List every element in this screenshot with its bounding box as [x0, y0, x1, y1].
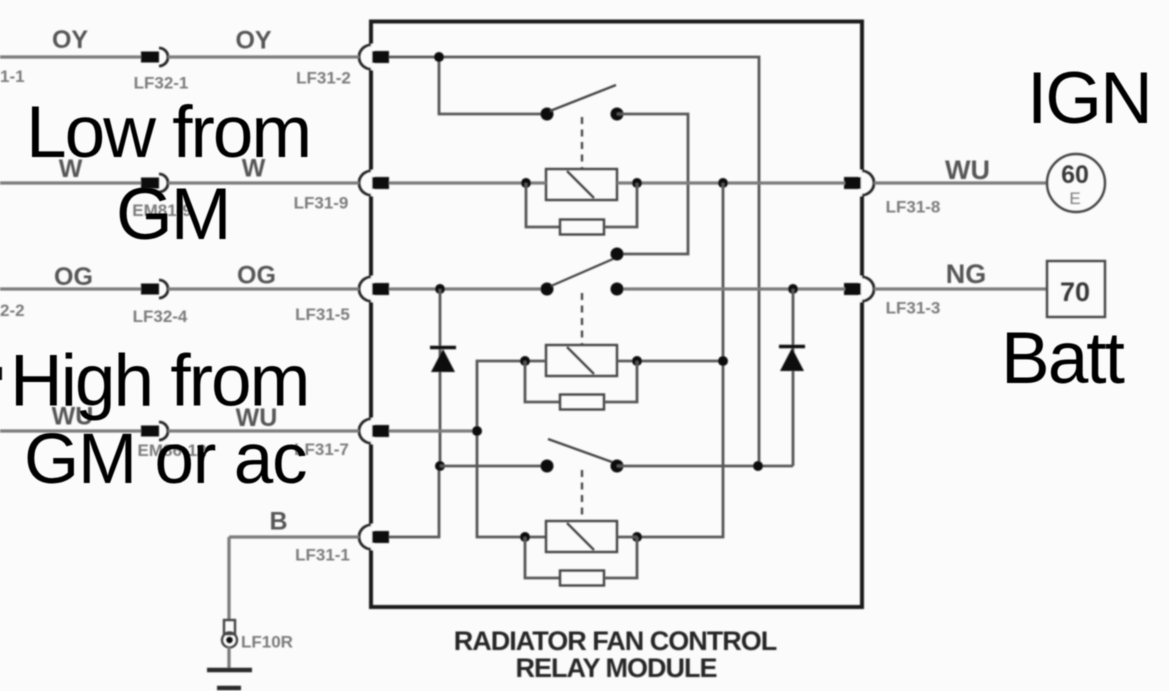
junction dot K1 right [632, 178, 642, 188]
dashed actuator link relay 2 [581, 293, 583, 344]
wire WU left segment [0, 429, 141, 432]
junction dot riser net W at K2 [718, 356, 728, 366]
pin socket arc LF31-8 [862, 171, 874, 195]
wire NG switch 2 right to pin LF31-3 [617, 287, 845, 290]
svg-text:RELAY MODULE: RELAY MODULE [515, 653, 716, 683]
wire W from pin LF31-9 to coil K1 [389, 181, 546, 184]
wire B riser to switch 3 junction [389, 466, 439, 537]
ground bar 2 [217, 686, 241, 691]
pin socket arc LF31-5 [359, 277, 371, 301]
dashed actuator link relay 3 [581, 470, 583, 520]
wire coil K3 right stub [617, 536, 637, 539]
pin LF31-9 [372, 177, 389, 189]
svg-text:OG: OG [54, 263, 93, 291]
pin LF31-5 [372, 283, 389, 295]
svg-text:LF32-1: LF32-1 [134, 74, 189, 93]
wire WU pin LF31-7 to riser [389, 429, 477, 432]
svg-text:OY: OY [52, 26, 88, 54]
connector LF32-4 [141, 284, 159, 295]
pin notch gaps on border [371, 44, 862, 550]
svg-text:Low from: Low from [26, 92, 310, 173]
ground bar 1 [207, 668, 252, 673]
relay coil K3 [546, 521, 617, 552]
connector LF32-1 [141, 52, 159, 63]
junction dot diode D2 top [788, 284, 798, 294]
junction dot B / D1 / switch3 [435, 461, 445, 471]
svg-text:IGN: IGN [1027, 58, 1151, 139]
svg-text:OY: OY [235, 27, 271, 55]
switch 3 blade [548, 439, 612, 462]
wire coil K2 right to riser [617, 360, 723, 363]
svg-text:LF10R: LF10R [241, 633, 293, 652]
junction dot K2 right [632, 356, 642, 366]
svg-text:GM or ac: GM or ac [24, 420, 306, 499]
vertical riser net W to coils 2 and 3 [637, 183, 723, 537]
pin socket arc LF31-1 [359, 525, 371, 549]
wire switch1 right to switch2 upper throw [617, 114, 688, 254]
pin LF31-2 [372, 51, 389, 63]
wire coil K2 left feed from LF31-7 riser [477, 361, 546, 537]
svg-text:NG: NG [946, 259, 987, 289]
junction dot K3 left [520, 532, 530, 542]
pin LF31-3 [844, 283, 861, 295]
wire W right segment [168, 181, 359, 184]
switch 2 blade (closed to upper throw) [551, 259, 613, 286]
wire OY right segment [168, 55, 359, 58]
diode D1 vertical net [439, 289, 442, 466]
switch 1 blade [550, 85, 616, 111]
svg-text:LF31-9: LF31-9 [294, 194, 349, 213]
resistor R2 bypass loop [525, 361, 560, 402]
resistor R1 bypass loop [526, 183, 560, 227]
junction dot K2 left [520, 356, 530, 366]
svg-text:LF31-1: LF31-1 [295, 546, 350, 565]
pin socket arc LF31-7 [359, 419, 371, 443]
wire W left segment [0, 181, 141, 184]
ground eyelet rect LF10R [224, 620, 235, 634]
junction dot net W / vertical riser [718, 178, 728, 188]
svg-text:WU: WU [945, 155, 990, 185]
svg-text:70: 70 [1060, 277, 1090, 307]
wire OG left segment [0, 287, 141, 290]
svg-text:LF32-4: LF32-4 [133, 307, 188, 326]
switch 1 left contact [541, 108, 554, 121]
dashed actuator link relay 1 [581, 117, 583, 168]
wire switch 3 right to diode D2 corner [617, 465, 793, 468]
junction dot riser at LF31-7 [472, 426, 482, 436]
diode D2 vertical net [792, 289, 795, 466]
junction dot net A at switch 3 output [753, 461, 763, 471]
wire junction to switch 3 left contact [440, 465, 547, 468]
wire NG output to Batt [874, 287, 1047, 290]
ground ring LF10R [222, 633, 237, 648]
diode D2 [780, 348, 804, 371]
switch 1 right contact [611, 108, 624, 121]
module border RADIATOR FAN CONTROL RELAY MODULE [371, 22, 862, 608]
switch 3 right contact [611, 460, 624, 473]
wire WU output to IGN [874, 181, 1048, 184]
diode D1 [431, 349, 455, 372]
relay coil K2 [546, 345, 617, 376]
IGN terminal circle 60 E [1047, 154, 1105, 212]
svg-text:Batt: Batt [1001, 318, 1125, 399]
pin socket arc LF31-2 [359, 45, 371, 69]
svg-text:GM: GM [116, 174, 230, 255]
wire B drop to ground [227, 537, 230, 621]
svg-text:LF31-2: LF31-2 [296, 69, 351, 88]
svg-text:60: 60 [1061, 161, 1089, 189]
pin LF31-8 [844, 177, 861, 189]
junction dot K3 right [632, 532, 642, 542]
svg-text:E: E [1069, 189, 1080, 208]
switch 2 right contact [611, 283, 624, 296]
wire OG right segment [168, 287, 359, 290]
pin socket arc LF31-9 [359, 171, 371, 195]
wire B horizontal [229, 535, 359, 538]
junction dot net A [434, 52, 444, 62]
pin LF31-7 [372, 425, 389, 437]
svg-text:OG: OG [237, 262, 276, 290]
switch 3 left contact [541, 460, 554, 473]
junction dot K1 left [521, 178, 531, 188]
relay coil K1 [546, 169, 617, 200]
pin socket arc LF31-3 [862, 277, 874, 301]
svg-text:High from: High from [10, 341, 308, 422]
switch 2 upper throw contact [611, 248, 624, 261]
svg-text:RADIATOR FAN CONTROL: RADIATOR FAN CONTROL [454, 626, 777, 656]
svg-text:B: B [269, 508, 287, 536]
svg-text:2-2: 2-2 [0, 301, 25, 320]
wire net A: pin LF31-2 across top and down right side [389, 57, 759, 466]
junction dot diode D1 top [435, 284, 445, 294]
annotation cut glyph at left edge [0, 367, 2, 380]
switch 2 left contact [541, 283, 554, 296]
resistor R3 bypass loop [525, 537, 560, 578]
svg-text:LF31-5: LF31-5 [295, 305, 350, 324]
wire WU right segment [168, 429, 359, 432]
Batt terminal box 70 [1047, 261, 1105, 317]
svg-text:LF31-3: LF31-3 [886, 299, 941, 318]
connector EM (W row) [141, 178, 159, 189]
pin LF31-1 [372, 531, 389, 543]
wire net A branch down to switch 1 [439, 57, 547, 114]
ground stem [227, 647, 230, 668]
wire OG from pin LF31-5 to switch 2 [389, 287, 547, 290]
wire OY left segment [0, 55, 141, 58]
svg-text:LF31-8: LF31-8 [886, 198, 941, 217]
connector EM (WU row) [141, 426, 159, 437]
wire coil K1 right to pin LF31-8 [617, 181, 845, 184]
svg-text:1-1: 1-1 [0, 67, 25, 86]
